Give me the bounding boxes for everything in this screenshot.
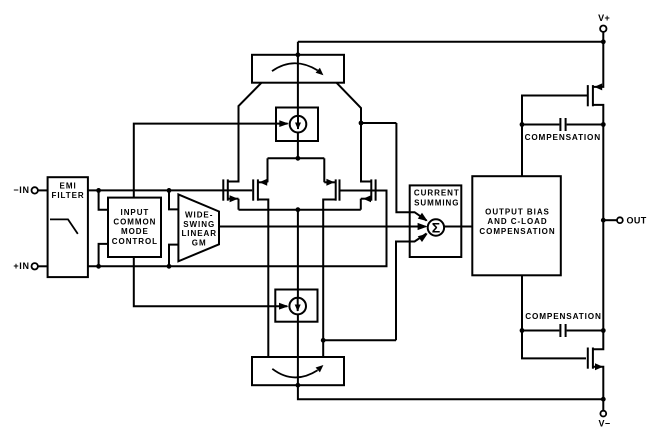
svg-text:LINEAR: LINEAR (181, 229, 216, 238)
svg-text:INPUT: INPUT (121, 208, 150, 217)
svg-text:CURRENT: CURRENT (414, 189, 460, 198)
svg-text:COMPENSATION: COMPENSATION (479, 227, 555, 236)
svg-text:WIDE-: WIDE- (185, 211, 213, 220)
svg-text:OUT: OUT (627, 215, 647, 225)
svg-text:MODE: MODE (121, 227, 149, 236)
svg-text:SWING: SWING (183, 220, 215, 229)
svg-text:AND C-LOAD: AND C-LOAD (487, 217, 547, 226)
svg-text:+IN: +IN (13, 261, 29, 271)
svg-text:GM: GM (192, 238, 207, 247)
svg-text:V+: V+ (598, 13, 610, 23)
svg-text:EMI: EMI (60, 182, 77, 191)
svg-text:V−: V− (598, 418, 610, 428)
svg-text:COMPENSATION: COMPENSATION (525, 133, 601, 142)
svg-text:Σ: Σ (432, 220, 440, 236)
svg-text:COMPENSATION: COMPENSATION (525, 312, 601, 321)
svg-text:OUTPUT BIAS: OUTPUT BIAS (485, 208, 550, 217)
svg-text:FILTER: FILTER (52, 191, 85, 200)
svg-text:CONTROL: CONTROL (112, 237, 158, 246)
svg-text:SUMMING: SUMMING (414, 199, 459, 208)
svg-text:−IN: −IN (13, 185, 29, 195)
svg-text:COMMON: COMMON (113, 218, 156, 227)
